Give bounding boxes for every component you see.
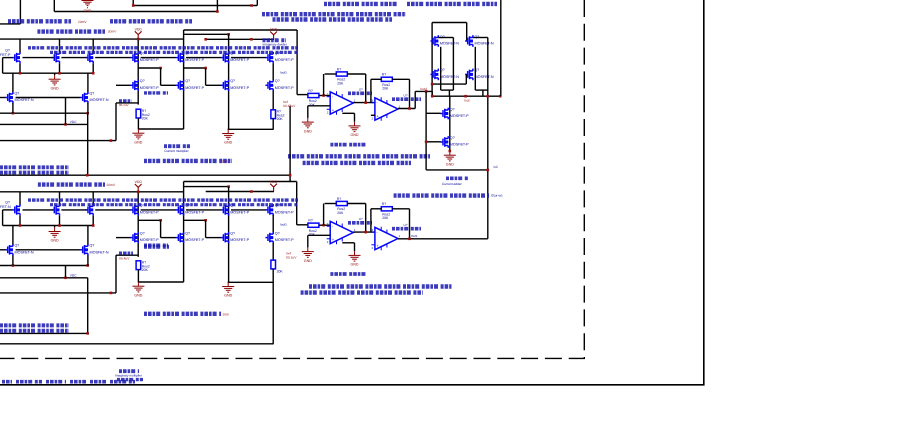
wire adder gate net — [432, 83, 466, 85]
label imag mult cn2 — [117, 378, 143, 381]
svg-text:U?: U? — [404, 93, 408, 97]
note bottom row seg5 — [90, 380, 106, 384]
wire fb2 right h — [392, 78, 409, 80]
wire bb v87 — [87, 278, 89, 334]
svg-text:MOSFET-P: MOSFET-P — [450, 114, 469, 118]
wire b fb left h — [325, 203, 337, 205]
svg-text:MOSFET-P: MOSFET-P — [185, 211, 204, 215]
sheet border — [0, 0, 704, 385]
junction ladder2 — [204, 67, 207, 70]
op-amp U1 bottom — [327, 217, 363, 244]
resistor R in bottom — [308, 219, 319, 237]
note mid para1 — [288, 154, 430, 158]
wire b opamp2 out — [398, 238, 488, 240]
wire b center res down — [272, 269, 274, 344]
wire adder A loop bottom — [441, 89, 454, 91]
wire gate rail r1 d — [141, 57, 176, 59]
wire b src 57.1 — [59, 216, 61, 226]
net labels b row1 line1 — [28, 198, 298, 201]
wire center vdd rail — [206, 38, 274, 40]
label opamp1 cn — [348, 92, 372, 96]
selection dashed border — [0, 0, 584, 358]
note 20mV b — [108, 30, 117, 34]
svg-text:MOSFET-N: MOSFET-N — [15, 250, 34, 254]
wire pmos gate1 — [426, 112, 441, 114]
svg-text:MOSFET-P: MOSFET-P — [140, 211, 159, 215]
wire opamp2 plus stub — [371, 114, 375, 116]
svg-text:MOSFET-N: MOSFET-N — [475, 75, 494, 79]
wire plus gnd stem — [307, 106, 309, 118]
junction bus a — [19, 72, 22, 75]
wire fb left v — [323, 74, 325, 96]
wire b drain 2 — [59, 192, 61, 205]
op-amp U2 bottom — [371, 223, 407, 250]
note line4 — [37, 29, 105, 33]
wire ladder1 h1 — [138, 67, 160, 69]
transistor row2 left 1 — [5, 91, 34, 103]
wire b-center box top — [184, 181, 297, 183]
svg-text:20mV: 20mV — [107, 183, 116, 187]
svg-text:MOSFET-N: MOSFET-N — [90, 250, 109, 254]
resistor R fb2 bottom — [381, 202, 392, 220]
wire r to minus — [319, 95, 330, 97]
resistor R center bottom — [271, 260, 276, 269]
wire ladder2 h2 — [206, 84, 221, 86]
note bb text1 — [0, 323, 69, 327]
wire column v c6 — [228, 34, 230, 129]
net Iout1 red — [420, 87, 427, 91]
wire center column2 — [272, 91, 274, 110]
wire Q2 drain — [59, 39, 61, 52]
svg-text:Current multiplier: Current multiplier — [164, 149, 189, 153]
wire mirror bus left — [3, 72, 94, 74]
svg-text:Q?: Q? — [230, 231, 235, 235]
svg-text:R?: R? — [308, 219, 312, 223]
wire adder A stack v — [440, 47, 442, 90]
svg-text:GND: GND — [304, 129, 312, 133]
transistor Q4 row1 top — [130, 51, 159, 63]
svg-text:Iout1: Iout1 — [280, 70, 287, 74]
wire b fb2 left v — [370, 209, 372, 232]
wire interblock v2 — [289, 175, 291, 181]
svg-text:Imaginary multiplier: Imaginary multiplier — [115, 374, 142, 378]
svg-text:Q?: Q? — [230, 79, 235, 83]
wire top horizontal y5 — [133, 5, 257, 7]
wire gate rail r1 e — [186, 57, 221, 59]
svg-text:20K: 20K — [337, 81, 344, 85]
net b Iref v — [286, 255, 297, 259]
svg-text:MOSFET-P: MOSFET-P — [140, 238, 159, 242]
junction ladder1 — [159, 67, 162, 70]
wire adder A1 drain tie — [438, 37, 453, 39]
wire b row2 left gates b — [16, 249, 81, 251]
svg-text:R?: R? — [337, 67, 341, 71]
svg-text:20K: 20K — [142, 117, 149, 121]
wire b ladder2 h1 — [184, 219, 206, 221]
wire gnd stem bus — [54, 73, 56, 75]
junction b fb left — [322, 224, 325, 227]
svg-text:VDD: VDD — [270, 180, 278, 184]
svg-text:GND: GND — [84, 9, 92, 13]
wire b ladder1 h1 — [138, 219, 160, 221]
wire opamp1 pwr stem — [342, 112, 354, 114]
wire ladder1 h2 — [161, 84, 176, 86]
wire plus input — [308, 105, 330, 107]
wire gate rail r1 f — [231, 57, 266, 59]
wire column v c4 — [137, 39, 139, 105]
net input v top — [119, 103, 129, 107]
wire out top h — [415, 90, 432, 92]
svg-text:Q?: Q? — [450, 136, 455, 140]
wire top vertical b — [216, 0, 218, 12]
junction top e — [250, 4, 253, 7]
label under b row2 c4 — [144, 243, 168, 246]
label b opamp1 cn — [348, 221, 372, 225]
svg-text:R?: R? — [382, 202, 386, 206]
svg-text:MOSFET-N: MOSFET-N — [440, 75, 459, 79]
wire b opamp feed — [297, 224, 308, 226]
wire gate loop left h — [3, 57, 13, 59]
wire mid box bottom b — [228, 128, 274, 130]
wire b ladder2 v — [205, 220, 207, 237]
svg-text:GND: GND — [351, 263, 359, 267]
note b para tail — [223, 312, 230, 316]
svg-text:MOSFET-P: MOSFET-P — [140, 58, 159, 62]
wire fb right h — [347, 73, 365, 75]
wire interblock h — [0, 174, 290, 176]
transistor b row2 1 — [130, 231, 159, 243]
svg-text:20K: 20K — [337, 211, 344, 215]
net Iout adder — [464, 98, 470, 102]
svg-text:MOSFET-P: MOSFET-P — [185, 238, 204, 242]
svg-text:MOSFET-P: MOSFET-P — [275, 238, 294, 242]
svg-text:Q?: Q? — [90, 244, 95, 248]
junction top c — [132, 4, 135, 7]
wire b opamp1 out — [353, 231, 375, 233]
wire bb v65 — [65, 266, 67, 278]
label ref cn — [330, 143, 368, 147]
transistor row1 bottom 7 — [265, 204, 294, 216]
ground opamp1 pwr — [349, 122, 361, 137]
note line3b — [110, 19, 192, 23]
junction gate rail — [227, 33, 230, 36]
wire left y124 — [0, 123, 88, 125]
note line2b — [273, 17, 393, 21]
wire interblock v — [289, 106, 291, 176]
junction bb y277 — [64, 277, 67, 280]
wire bb y293 — [0, 292, 116, 294]
junction pmos gate2 — [425, 141, 428, 144]
net label VDC — [70, 120, 77, 124]
junction b y265 b — [86, 264, 89, 267]
note bottom row seg2 — [16, 380, 42, 384]
wire src col 17.6 — [19, 63, 21, 73]
svg-text:20mV: 20mV — [108, 30, 117, 34]
wire adder B1 drain tie — [473, 37, 488, 39]
junction b bus a — [19, 224, 22, 227]
wire b opamp1 pwr — [342, 242, 354, 244]
wire b mid box bottom b — [228, 281, 274, 283]
junction vdd rail a — [204, 38, 207, 41]
wire b src 90.8 — [92, 216, 94, 226]
wire bottom rail — [0, 191, 184, 193]
transistor row1 bottom 6 — [221, 204, 250, 216]
note line3a — [8, 19, 71, 23]
wire top-left horizontal — [0, 23, 20, 25]
junction b ladder2 — [204, 219, 207, 222]
wire gate rail r1 b — [61, 57, 86, 59]
wire b ladder0 h2 — [116, 237, 131, 239]
svg-text:Ix2: Ix2 — [494, 165, 498, 169]
resistor R fb2 top — [381, 73, 392, 91]
wire adder gate net v — [465, 74, 467, 84]
wire gate rail r1 c — [95, 57, 130, 59]
ground top rail — [82, 1, 94, 13]
label under row2 c4 — [144, 91, 168, 94]
svg-text:20K: 20K — [382, 216, 389, 220]
svg-text:80.4uV: 80.4uV — [119, 103, 129, 107]
note b para2 — [301, 290, 423, 294]
wire src col a down — [12, 103, 14, 113]
power VDD bottom-center — [270, 180, 278, 192]
junction b ladder1 — [159, 219, 162, 222]
ground mid box a — [132, 129, 144, 144]
junction b out — [408, 238, 411, 241]
svg-text:Current adder: Current adder — [442, 182, 463, 186]
note line1b — [407, 2, 497, 6]
wire long vertical right — [500, 0, 502, 96]
wire b left drain a — [12, 226, 14, 245]
transistor Q1 row1 top — [0, 48, 20, 63]
wire adder B loop bottom — [475, 89, 488, 91]
wire b ladder1 v — [160, 220, 162, 237]
wire adder B stack v — [474, 47, 476, 90]
wire adder A down — [448, 90, 450, 96]
note bottom 20mV — [107, 183, 116, 187]
svg-text:MOSFET-P: MOSFET-P — [230, 58, 249, 62]
junction b vdd rail — [250, 190, 253, 193]
wire b gate rail f — [231, 209, 266, 211]
wire adder gateB v — [466, 23, 468, 42]
svg-text:20mV: 20mV — [78, 20, 87, 24]
resistor R mid top — [136, 109, 150, 121]
junction c4 rail — [137, 38, 140, 41]
label b input cn — [119, 251, 133, 254]
wire center column — [272, 63, 274, 80]
wire b ladder0 h3 — [116, 254, 138, 256]
wire row2 left gates b — [16, 97, 81, 99]
note line1a — [324, 2, 399, 6]
transistor Q2 row1 top — [52, 52, 60, 64]
wire out joint v — [431, 91, 433, 96]
wire b drain 1 — [19, 192, 21, 205]
wire b gate loop h — [3, 209, 13, 211]
net label Ix2 — [494, 165, 498, 169]
wire b src b down — [87, 255, 89, 265]
wire fb2 left h — [371, 78, 381, 80]
svg-text:MOSFET-P: MOSFET-P — [230, 211, 249, 215]
wire row2 left drain a — [12, 73, 14, 92]
ground adder out — [444, 151, 456, 166]
wire b ladder0 v — [115, 255, 117, 293]
transistor b row2 4 — [265, 231, 294, 243]
transistor adder A1 — [431, 35, 460, 47]
svg-text:Q?: Q? — [450, 107, 455, 111]
junction bb y293 — [110, 292, 113, 295]
svg-text:Q?: Q? — [15, 91, 20, 95]
wire top-left vertical — [19, 0, 21, 24]
junction opamp2 out — [408, 107, 411, 110]
svg-text:Q?: Q? — [185, 79, 190, 83]
wire bb y333 — [0, 332, 88, 334]
wire src col 57.1 — [59, 63, 61, 73]
svg-text:Q?: Q? — [5, 48, 10, 52]
net label Iout1 top — [280, 70, 287, 74]
wire center box right — [296, 30, 298, 95]
svg-text:GND: GND — [134, 293, 142, 297]
wire center box top — [184, 29, 298, 31]
wire bb bottom box — [0, 343, 274, 345]
net b Iref — [286, 251, 291, 255]
svg-text:MOSFET-P: MOSFET-P — [275, 211, 294, 215]
transistor adder A2 — [431, 68, 460, 80]
wire top vertical c — [132, 0, 134, 6]
svg-text:20K: 20K — [382, 87, 389, 91]
wire opamp feed — [297, 94, 308, 96]
transistor Q6 row1 top — [221, 51, 250, 63]
wire top horizontal y11 — [54, 11, 217, 13]
transistor b row2 left 2 — [80, 244, 109, 256]
junction output mid — [487, 169, 490, 172]
wire ladder2 v — [205, 68, 207, 85]
svg-text:20K: 20K — [277, 117, 284, 121]
op-amp U2 top — [371, 93, 407, 120]
ground b mid b — [222, 282, 234, 297]
wire gate feed v — [425, 91, 427, 169]
wire top vertical d — [256, 0, 258, 6]
junction rail c — [499, 95, 502, 98]
wire b gate rail d — [141, 209, 176, 211]
note line2a — [262, 12, 406, 16]
junction bus b — [58, 72, 61, 75]
transistor row1 bottom 3 — [85, 204, 93, 216]
wire b gate rail e — [186, 209, 221, 211]
wire opamp1 pwr v — [354, 113, 356, 121]
wire adder left edge — [431, 23, 433, 97]
wire pmos col — [449, 96, 451, 151]
ground b opamp1 plus — [302, 247, 314, 262]
svg-text:Q?: Q? — [90, 91, 95, 95]
wire column v c5 — [183, 30, 185, 129]
wire b center col2 — [272, 243, 274, 261]
wire Q3 drain — [92, 39, 94, 52]
wire b gnd stem — [54, 226, 56, 228]
junction b bus b — [58, 224, 61, 227]
wire pmos gate2 — [426, 141, 441, 143]
net label Out1 — [411, 234, 418, 238]
wire gate loop left v — [2, 58, 4, 74]
svg-text:MOSFET-P: MOSFET-P — [230, 86, 249, 90]
junction iout1 — [425, 90, 428, 93]
label b cm cn — [144, 245, 169, 249]
wire b row2 left gates a — [0, 249, 5, 251]
svg-text:VDD: VDD — [135, 28, 143, 32]
wire output long vertical — [487, 96, 489, 239]
transistor adder B2 — [465, 68, 494, 80]
wire b gate rail c — [95, 209, 130, 211]
wire b plus gnd stem — [307, 235, 309, 247]
junction y113 b — [86, 112, 89, 115]
ground opamp1 plus — [302, 118, 314, 133]
svg-text:U?: U? — [359, 217, 363, 221]
transistor row2 mid 2 — [176, 79, 205, 91]
note bottom block title — [38, 182, 105, 186]
net label VDC b — [70, 273, 77, 277]
junction y113 a — [12, 112, 15, 115]
svg-text:GND: GND — [446, 162, 454, 166]
ground mid box b — [222, 129, 234, 144]
svg-text:MOSFET-P: MOSFET-P — [275, 86, 294, 90]
resistor R center top — [271, 110, 285, 122]
label imag mult cn — [119, 369, 139, 373]
transistor adder B1 — [465, 35, 494, 47]
wire b src 17.6 — [19, 216, 21, 226]
wire out up — [414, 91, 416, 108]
label input cn top — [119, 99, 132, 102]
power VDD top-left — [135, 28, 143, 40]
junction pmos gnd — [449, 150, 452, 153]
junction vdd rail b — [250, 38, 253, 41]
junction b y265 a — [12, 264, 15, 267]
wire b fb2 left h — [371, 208, 381, 210]
label b ref cn s — [330, 272, 368, 276]
ground b opamp1 pwr — [349, 251, 361, 266]
wire b fb2 right v — [409, 209, 411, 239]
svg-text:Out1: Out1 — [411, 234, 418, 238]
junction y124 — [64, 123, 67, 126]
transistor row1 bottom 2 — [52, 204, 60, 216]
transistor row1 bottom 4 — [130, 204, 159, 216]
resistor R in top — [308, 89, 319, 107]
svg-text:Q?: Q? — [140, 79, 145, 83]
transistor b row2 left 1 — [5, 244, 34, 256]
svg-text:U?: U? — [359, 87, 363, 91]
wire b mid res down — [137, 270, 139, 282]
op-amp U1 top — [327, 87, 363, 114]
wire left y140 — [0, 140, 116, 142]
svg-text:MOSFET-P: MOSFET-P — [230, 238, 249, 242]
note above bottom b — [0, 171, 69, 175]
svg-text:20K: 20K — [277, 270, 284, 274]
note mid para2a — [144, 159, 232, 163]
svg-text:Q?: Q? — [275, 231, 280, 235]
note mid para2b — [303, 161, 411, 165]
svg-text:20m: 20m — [223, 312, 230, 316]
transistor out P1 — [440, 107, 469, 119]
wire b gate rail a — [23, 209, 53, 211]
wire b ladder1 h2 — [161, 237, 176, 239]
transistor row2 mid 1 — [130, 79, 159, 91]
wire ladder0 v — [115, 103, 117, 141]
label opamp2 cn — [392, 97, 421, 101]
note adder para — [394, 193, 489, 197]
transistor Q5 row1 top — [176, 51, 205, 63]
wire ladder1 v — [160, 68, 162, 85]
svg-text:GND: GND — [351, 133, 359, 137]
svg-text:MOSFET-N: MOSFET-N — [15, 98, 34, 102]
svg-text:Imaginary divider: Imaginary divider — [263, 43, 288, 47]
wire adder A loop v — [452, 38, 454, 91]
